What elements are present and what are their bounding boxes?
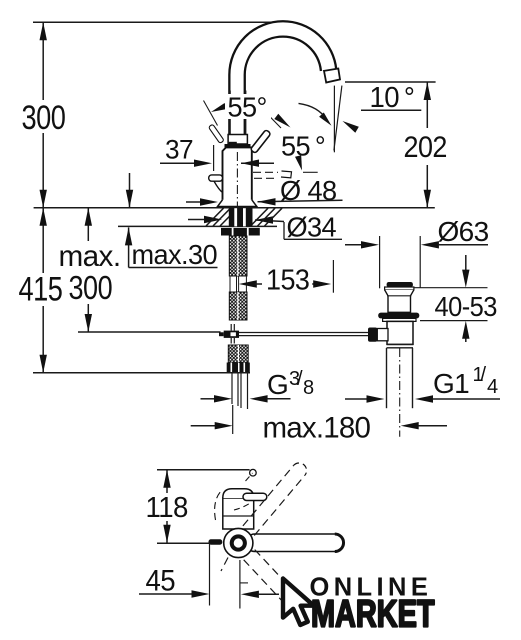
dashed swivel bottom-left tick: [221, 558, 228, 572]
40-53 upper arrow: [462, 255, 469, 288]
body base skirt: [218, 200, 257, 207]
svg-text:4: 4: [487, 376, 498, 398]
drain body bottom lines: [387, 344, 414, 347]
top view spout: [246, 534, 344, 552]
body centerline: [236, 152, 238, 207]
braided hoses upper: [229, 236, 247, 276]
118 bottom line: [157, 542, 210, 544]
O63 dim line: [345, 241, 488, 248]
dimension 300 line lower: [40, 133, 47, 208]
svg-text:10 °: 10 °: [370, 80, 415, 113]
svg-text:118: 118: [146, 492, 188, 523]
153 left arrow: [239, 280, 262, 287]
dimension 202 line lower: [424, 165, 431, 208]
118 dim upper: [163, 470, 170, 493]
dimension 415 line upper: [40, 208, 47, 273]
dimension 415 line lower: [40, 306, 47, 373]
svg-text:Ø34: Ø34: [287, 211, 337, 242]
braided hoses lower: [228, 345, 248, 363]
O34 dim right leader: [255, 216, 284, 223]
O48 dim left: [186, 198, 218, 205]
spout tube arc: [237, 29, 329, 135]
40-53 lower arrow: [462, 321, 469, 342]
40-53 top line: [414, 287, 488, 289]
max.180 left extension: [232, 405, 234, 434]
top view pivot ring: [232, 536, 245, 549]
202 top extension line: [345, 81, 436, 83]
max.30 lower arrow: [125, 227, 132, 267]
water stream angled line: [334, 86, 342, 151]
10 deg leader line: [343, 110, 422, 132]
lever dashed horizontal bottom: [254, 177, 275, 179]
body left outline: [213, 145, 215, 171]
lever dashed end cap: [281, 171, 292, 178]
rod fitting upper pin: [231, 324, 234, 331]
153 right arrow: [312, 280, 331, 287]
drain tailpipe: [387, 348, 413, 408]
O48 dim right: [258, 198, 343, 205]
O34 dim left: [188, 216, 222, 223]
drain neck: [385, 290, 414, 313]
label O63: [438, 216, 489, 247]
top view body: [223, 498, 254, 529]
svg-text:37: 37: [165, 134, 193, 164]
max.300 reach line: [78, 331, 221, 333]
svg-text:45: 45: [146, 564, 176, 597]
118 dim lower: [163, 521, 170, 543]
dimension max.300 line lower: [85, 304, 92, 332]
hose end reference line: [33, 372, 250, 374]
lever dashed horizontal top: [253, 171, 278, 173]
spout outlet block: [324, 69, 340, 83]
faucet body: [223, 147, 252, 206]
dashed swivel spout upper edge: [243, 465, 294, 526]
label G 3/8: [267, 368, 314, 400]
45 dim line: [139, 590, 210, 597]
top view dome: [223, 489, 254, 498]
top view lever tab: [209, 539, 223, 544]
svg-text:55 °: 55 °: [281, 130, 325, 161]
body collar band: [225, 144, 251, 147]
drain flange base: [383, 318, 416, 321]
counter top line: [34, 207, 435, 209]
dashed swivel spout cap: [294, 463, 307, 475]
lever handle solid: [250, 129, 271, 153]
svg-text:/: /: [481, 364, 487, 386]
drain side knob: [368, 328, 388, 342]
hose gap lines: [230, 276, 246, 292]
45 right extension: [240, 560, 248, 609]
label 45: [146, 564, 176, 597]
55deg-1 left ray: [204, 101, 218, 126]
55deg-1 right arrow: [274, 114, 290, 128]
svg-text:G1: G1: [433, 368, 469, 399]
O34 label bracket: [284, 222, 342, 239]
dimension 37 right: [241, 160, 274, 167]
118 top line: [157, 469, 250, 471]
40-53 bottom line: [420, 320, 488, 322]
55deg-1 left arrow: [211, 103, 227, 112]
label 55deg-2: [281, 130, 325, 161]
pop-up rod horizontal: [239, 333, 368, 336]
cartridge cap black insert: [229, 142, 237, 145]
svg-text:Ø63: Ø63: [438, 216, 489, 247]
hose nuts: [227, 363, 250, 373]
counter bottom line (max.30 underside): [118, 225, 277, 227]
top reference line (spout height): [33, 21, 272, 23]
drain cap base: [385, 287, 414, 290]
label 55deg-1 halo: [225, 94, 271, 119]
label O34: [287, 211, 337, 242]
lever handle alt position: [208, 124, 224, 143]
logo text MARKET: [311, 593, 435, 636]
55deg-2 arc arrow: [295, 155, 318, 172]
label 153: [266, 264, 309, 296]
svg-text:max.180: max.180: [263, 412, 371, 445]
svg-text:55°: 55°: [228, 91, 267, 122]
svg-text:G: G: [267, 369, 288, 400]
svg-text:153: 153: [266, 264, 309, 296]
threaded shank: [229, 208, 253, 226]
svg-text:202: 202: [404, 131, 447, 165]
svg-text:max.30: max.30: [132, 239, 218, 270]
top view pivot outer circle: [224, 528, 253, 557]
logo text ONLINE: [310, 574, 433, 602]
svg-text:40-53: 40-53: [435, 291, 497, 322]
svg-text:Ø 48: Ø 48: [280, 175, 337, 206]
svg-text:415: 415: [19, 270, 63, 309]
drain flange: [378, 313, 419, 319]
dimension max.300 line upper: [85, 208, 92, 241]
dashed swivel spout lower edge: [254, 475, 305, 536]
label 40-53: [435, 291, 497, 322]
label 37: [165, 134, 193, 164]
label 118: [146, 492, 188, 523]
top view swivel dash arc inner: [234, 504, 250, 511]
braided hoses middle: [229, 292, 247, 320]
water stream vertical line: [333, 86, 335, 153]
dashed swivel spout lower-right edge B: [255, 550, 295, 593]
label max.30: [132, 239, 218, 270]
dashed swivel spout lower-right edge A: [244, 560, 284, 603]
G3/8 dim line: [201, 395, 291, 402]
55deg-1 right ray: [261, 107, 282, 128]
logo cursor: [283, 579, 314, 626]
svg-text:8: 8: [303, 377, 314, 399]
max.30 upper arrow: [126, 173, 133, 208]
top view swivel dash arc left: [215, 490, 222, 520]
svg-text:max.: max.: [59, 240, 121, 273]
label O48: [280, 175, 337, 206]
G1-1/4 dim line: [345, 395, 500, 402]
O63 extension lines: [380, 236, 421, 288]
45 left extension: [209, 543, 211, 605]
top view lever: [243, 493, 267, 500]
mounting nut: [221, 228, 260, 236]
drain cap top: [387, 282, 413, 287]
hose tails: [232, 372, 248, 409]
spout swivel arc: [299, 103, 332, 125]
pull rod knob: [209, 175, 223, 193]
label G1 1/4: [433, 364, 498, 399]
rod fitting lower pin: [231, 338, 234, 344]
counter cross-section hatching: [206, 208, 282, 226]
label 202: [404, 131, 447, 165]
153 extension line: [332, 260, 334, 293]
drain body: [387, 321, 413, 344]
max.180 left arrow: [191, 422, 233, 429]
label 300 (max): [69, 271, 113, 307]
rod fitting: [219, 331, 239, 338]
dimension 300 line upper: [40, 22, 47, 100]
label 55deg-1: [228, 91, 267, 122]
label 10deg: [370, 80, 415, 113]
45 right arrow: [241, 591, 279, 598]
cartridge cap: [228, 135, 247, 145]
max.30 label bracket: [129, 267, 218, 269]
label 300: [22, 98, 66, 137]
spout riser pipe: [230, 91, 246, 135]
label max.180: [263, 412, 371, 445]
label 415: [19, 270, 63, 309]
dimension 202 line upper: [424, 82, 431, 128]
label max.: [59, 240, 121, 273]
drain centerline: [399, 348, 401, 437]
top view knob: [246, 469, 257, 481]
svg-text:MARKET: MARKET: [311, 593, 435, 636]
dimension 37 left: [160, 160, 212, 167]
svg-text:300: 300: [22, 98, 66, 137]
max.180 right arrow: [401, 422, 447, 429]
svg-text:300: 300: [69, 271, 113, 307]
